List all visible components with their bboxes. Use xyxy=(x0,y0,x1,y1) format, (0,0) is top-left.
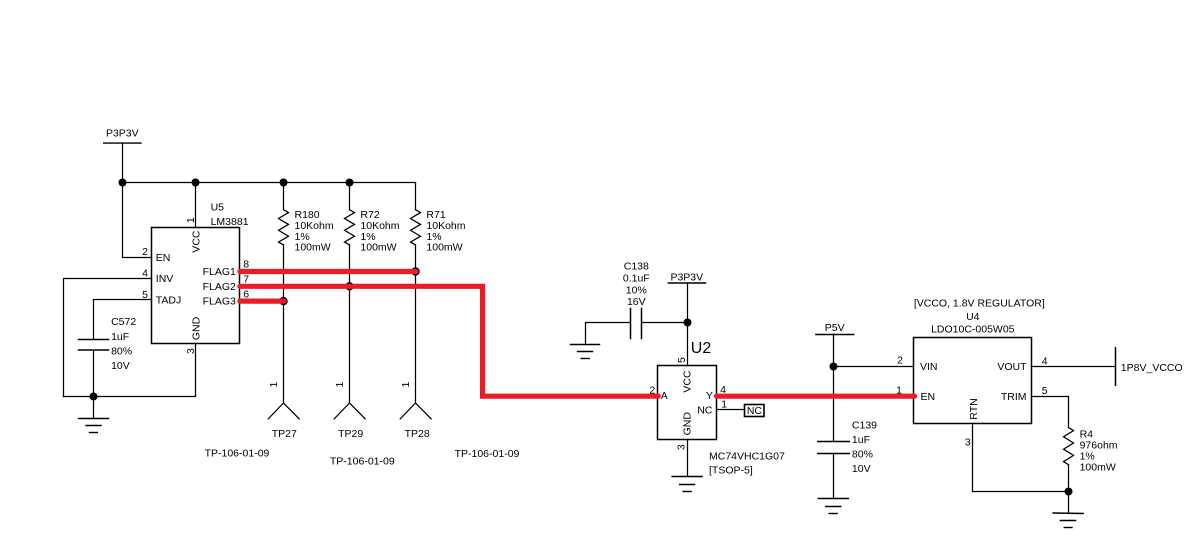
svg-text:100mW: 100mW xyxy=(295,242,331,254)
svg-text:U2: U2 xyxy=(691,340,712,357)
wire U4 VOUT pin 4 xyxy=(1032,366,1116,368)
svg-text:EN: EN xyxy=(156,252,171,264)
svg-text:[VCCO, 1.8V REGULATOR]: [VCCO, 1.8V REGULATOR] xyxy=(914,297,1045,309)
wire FLAG1 net (red) xyxy=(240,269,416,274)
svg-text:100mW: 100mW xyxy=(426,242,462,254)
svg-text:VCC: VCC xyxy=(681,370,693,393)
svg-text:P5V: P5V xyxy=(825,322,845,334)
svg-text:U4: U4 xyxy=(966,311,980,323)
op-amp U5 LM3881 xyxy=(142,201,249,354)
power symbol P5V xyxy=(816,322,854,367)
svg-text:C138: C138 xyxy=(624,260,649,272)
svg-text:VIN: VIN xyxy=(920,361,938,373)
no-connect flag NC xyxy=(745,405,765,417)
resistor R72 xyxy=(345,183,400,404)
wire U2 NC pin 1 xyxy=(717,409,745,411)
svg-text:VOUT: VOUT xyxy=(997,361,1027,373)
node junction P5V xyxy=(830,363,838,371)
wire U5 INV pin 4 xyxy=(64,279,152,397)
svg-text:1P8V_VCCO: 1P8V_VCCO xyxy=(1121,362,1183,374)
svg-text:1uF: 1uF xyxy=(111,331,129,343)
ground (left of C138) xyxy=(571,345,600,359)
resistor R180 xyxy=(279,183,334,404)
svg-text:4: 4 xyxy=(142,267,148,279)
ground (below R4) xyxy=(1053,492,1083,528)
svg-text:80%: 80% xyxy=(111,346,132,358)
ground (below C572) xyxy=(79,397,109,433)
svg-text:A: A xyxy=(661,390,668,402)
node junction R4/RTN xyxy=(1065,488,1073,496)
svg-text:0.1uF: 0.1uF xyxy=(623,272,650,284)
svg-text:RTN: RTN xyxy=(968,398,980,419)
svg-text:MC74VHC1G07: MC74VHC1G07 xyxy=(709,451,785,463)
node junction FLAG3/R180 xyxy=(279,297,287,305)
wire FLAG2 net to U2 A (red) xyxy=(240,286,658,396)
svg-text:1: 1 xyxy=(268,382,280,388)
svg-text:80%: 80% xyxy=(852,449,873,461)
svg-text:FLAG1: FLAG1 xyxy=(203,266,236,278)
svg-text:C139: C139 xyxy=(852,419,877,431)
wire U5 TADJ pin 5 xyxy=(94,300,152,340)
svg-text:1: 1 xyxy=(400,382,412,388)
wire C138 left to ground xyxy=(586,323,631,345)
svg-text:LM3881: LM3881 xyxy=(211,216,249,228)
wire C572 to ground net xyxy=(93,350,95,397)
svg-text:NC: NC xyxy=(697,405,713,417)
svg-text:EN: EN xyxy=(921,391,936,403)
svg-text:TP27: TP27 xyxy=(272,428,297,440)
wire to U2 pin 5 xyxy=(687,323,689,366)
node junction at U2 VCC xyxy=(684,319,692,327)
power symbol P3P3V (left) xyxy=(104,128,141,183)
svg-text:5: 5 xyxy=(1042,385,1048,397)
svg-text:TRIM: TRIM xyxy=(1001,391,1027,403)
svg-text:C572: C572 xyxy=(111,316,136,328)
wire U4 RTN pin 3 xyxy=(973,424,1069,492)
wire P5V to U4 VIN xyxy=(834,366,914,368)
svg-text:100mW: 100mW xyxy=(1080,462,1116,474)
node junction dots on bus xyxy=(119,179,354,187)
test point TP29 xyxy=(330,382,395,468)
test point TP28 xyxy=(400,382,520,460)
wire U5 pin 1 VCC xyxy=(195,183,197,228)
svg-text:1: 1 xyxy=(721,399,727,411)
svg-text:TP29: TP29 xyxy=(338,428,363,440)
svg-text:1: 1 xyxy=(185,217,197,223)
wire U5 GND pin 3 xyxy=(64,344,196,397)
svg-text:10V: 10V xyxy=(111,360,130,372)
ground (below C139) xyxy=(818,499,848,514)
svg-text:GND: GND xyxy=(190,316,202,340)
svg-text:1uF: 1uF xyxy=(852,434,870,446)
regulator U4 LDO10C-005W05 xyxy=(896,297,1048,448)
power symbol P3P3V (middle) xyxy=(668,272,705,323)
resistor R71 xyxy=(411,183,466,404)
svg-text:[TSOP-5]: [TSOP-5] xyxy=(709,464,753,476)
svg-text:2: 2 xyxy=(142,246,148,258)
svg-text:P3P3V: P3P3V xyxy=(106,128,139,140)
svg-text:10%: 10% xyxy=(626,284,647,296)
capacitor C572 xyxy=(79,316,137,372)
svg-text:10V: 10V xyxy=(852,463,871,475)
svg-text:3: 3 xyxy=(676,444,688,450)
wire U2 GND pin 3 xyxy=(687,440,689,477)
wire VCC bus xyxy=(123,182,416,184)
svg-text:GND: GND xyxy=(681,412,693,436)
capacitor C138 xyxy=(623,260,650,338)
svg-text:1: 1 xyxy=(334,382,346,388)
node junction FLAG2/R72 xyxy=(345,282,353,290)
port 1P8V_VCCO xyxy=(1116,348,1183,386)
svg-text:2: 2 xyxy=(897,355,903,367)
svg-text:NC: NC xyxy=(747,405,763,417)
svg-text:TP-106-01-09: TP-106-01-09 xyxy=(330,455,395,467)
svg-text:FLAG2: FLAG2 xyxy=(203,281,236,293)
svg-text:Y: Y xyxy=(706,390,713,402)
svg-text:5: 5 xyxy=(676,357,688,363)
svg-text:TP-106-01-09: TP-106-01-09 xyxy=(205,448,270,460)
wire C139 to ground xyxy=(833,454,835,499)
wire U4 TRIM pin 5 to R4 xyxy=(1032,397,1069,428)
ground (below U2) xyxy=(672,477,702,492)
svg-text:P3P3V: P3P3V xyxy=(670,272,703,284)
svg-text:U5: U5 xyxy=(211,201,225,213)
svg-text:TP28: TP28 xyxy=(405,428,430,440)
node junction at ground xyxy=(90,393,98,401)
svg-text:FLAG3: FLAG3 xyxy=(203,296,236,308)
svg-text:TADJ: TADJ xyxy=(156,295,181,307)
wire C138 right to node xyxy=(642,322,688,324)
svg-text:TP-106-01-09: TP-106-01-09 xyxy=(455,448,520,460)
svg-text:INV: INV xyxy=(156,273,174,285)
svg-text:100mW: 100mW xyxy=(360,242,396,254)
wire U2 Y to U4 EN (red) xyxy=(717,394,915,399)
wire P5V down to C139 xyxy=(833,367,835,442)
node junction FLAG1/R71 xyxy=(411,267,419,275)
capacitor C139 xyxy=(818,419,877,475)
wire FLAG3 net (red) xyxy=(240,299,284,304)
svg-text:16V: 16V xyxy=(627,296,646,308)
test point TP27 xyxy=(205,382,300,460)
resistor R4 xyxy=(1064,428,1118,492)
svg-text:3: 3 xyxy=(965,436,971,448)
svg-text:LDO10C-005W05: LDO10C-005W05 xyxy=(931,323,1015,335)
svg-text:VCC: VCC xyxy=(190,230,202,253)
buffer U2 MC74VHC1G07 xyxy=(649,340,785,477)
wire to U5 EN pin 2 xyxy=(123,183,152,258)
